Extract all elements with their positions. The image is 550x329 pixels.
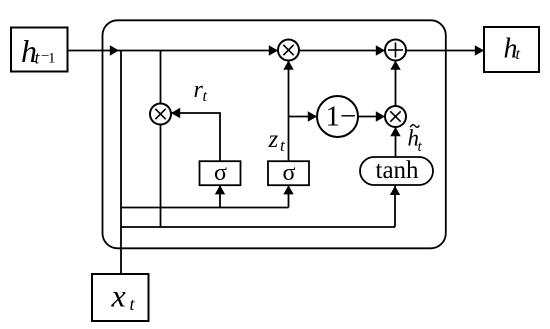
box h_{t-1} xyxy=(11,28,68,72)
wire bus1 branch up to sigma1 xyxy=(215,185,225,207)
wire tanh top to h-tilde multiply bottom xyxy=(390,127,400,157)
wire h_{t-1} to reset-multiply circle (main h line, left segment) xyxy=(68,45,279,55)
wire z_t from sigma2 top to z-multiply bottom xyxy=(283,61,293,162)
svg-text:1−: 1− xyxy=(326,100,357,132)
box x_t xyxy=(92,274,149,321)
wire branch from z_t line to 1-minus circle xyxy=(289,111,318,121)
wire bus2 horizontal xyxy=(121,226,395,228)
tanh pill box xyxy=(360,157,433,185)
svg-text:σ: σ xyxy=(214,160,227,186)
svg-text:1: 1 xyxy=(48,50,56,66)
svg-text:tanh: tanh xyxy=(376,157,420,184)
wire vertical V1 from h line down to x_t box xyxy=(120,51,122,275)
svg-text:z: z xyxy=(268,126,279,153)
wire 1-minus to h-tilde multiply xyxy=(358,111,385,121)
wire bus1 horizontal xyxy=(121,207,289,209)
label r_t xyxy=(194,77,208,105)
sigma box 2 xyxy=(268,160,309,186)
GRU cell rounded rectangle xyxy=(103,20,446,248)
svg-text:σ: σ xyxy=(283,160,296,186)
wire r_t feedback from sigma1 top to reset multiply xyxy=(171,108,220,161)
wire add circle to h_t xyxy=(406,45,484,55)
svg-text:x: x xyxy=(111,278,126,314)
label h-tilde_t xyxy=(408,125,423,155)
add circle xyxy=(385,40,406,61)
circle 1-minus xyxy=(317,96,358,137)
box h_t xyxy=(484,27,539,72)
wire z-multiply to add circle xyxy=(299,45,385,55)
wire bus2 end up to tanh xyxy=(390,186,400,227)
wire h-tilde multiply up to add circle xyxy=(390,61,400,107)
svg-text:t: t xyxy=(203,88,208,105)
label z_t xyxy=(268,126,287,155)
wire vertical V2 upper (h line down to reset multiply) xyxy=(160,51,162,104)
svg-text:t: t xyxy=(516,46,521,63)
multiply circle z gate (top) xyxy=(278,40,299,61)
multiply circle h-tilde xyxy=(385,106,406,127)
wire bus1 end up to sigma2 xyxy=(283,185,293,207)
sigma box 1 xyxy=(200,160,241,186)
multiply circle reset gate xyxy=(150,104,171,125)
wire vertical V2 lower (reset multiply down to bus2) xyxy=(160,125,162,228)
